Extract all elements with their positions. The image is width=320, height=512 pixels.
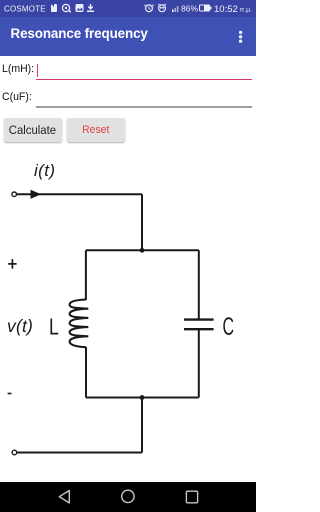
- file icon: [51, 4, 57, 12]
- capacitor C top plate: [184, 318, 214, 320]
- svg-text:i(t): i(t): [34, 161, 55, 180]
- label minus polarity: [8, 393, 12, 395]
- circuit schematic: [0, 0, 256, 512]
- wire bottom rail: [86, 397, 199, 399]
- node junction bottom: [140, 395, 145, 400]
- terminal node top: [12, 192, 17, 197]
- label plus polarity: [8, 259, 16, 268]
- wire top rail: [86, 249, 199, 251]
- inductor L: [70, 300, 89, 348]
- current arrow: [31, 190, 42, 199]
- L row: [2, 63, 34, 75]
- capacitor C bottom plate: [184, 328, 214, 330]
- image icon: [76, 4, 84, 12]
- download icon: [88, 4, 92, 9]
- wire top horizontal: [17, 193, 142, 195]
- circle icon: [62, 4, 69, 11]
- wire bottom horizontal: [17, 452, 142, 454]
- app bar: [0, 17, 256, 56]
- svg-text:C: C: [223, 314, 235, 341]
- wire left branch lower: [85, 347, 87, 398]
- signal bars: [172, 10, 174, 13]
- status bar: [0, 0, 256, 17]
- wire right branch upper: [198, 250, 200, 319]
- wire bottom feed: [141, 398, 143, 453]
- wire feed down: [141, 194, 143, 250]
- nav bar: [0, 482, 256, 512]
- wire left branch upper: [85, 250, 87, 300]
- buttons: [4, 118, 62, 143]
- node junction top: [140, 248, 145, 253]
- owl icon: [159, 5, 166, 12]
- C row: [2, 91, 32, 103]
- wire right branch lower: [198, 329, 200, 397]
- svg-text:L: L: [49, 314, 59, 340]
- terminal node bottom: [12, 450, 17, 455]
- battery: [199, 5, 210, 12]
- svg-text:v(t): v(t): [7, 316, 33, 336]
- alarm icon: [146, 5, 153, 12]
